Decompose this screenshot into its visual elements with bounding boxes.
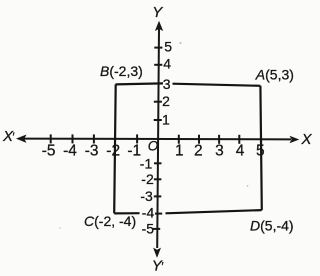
svg-text:A(5,3): A(5,3)	[255, 66, 294, 82]
svg-text:1: 1	[175, 143, 184, 160]
tick y=-5	[153, 228, 160, 230]
rectangle edge BA top segment right (y-axis to A)	[173, 84, 261, 86]
svg-text:-3: -3	[85, 143, 99, 160]
svg-text:D(5,-4): D(5,-4)	[250, 217, 294, 233]
tick x=3	[218, 135, 220, 144]
arrowhead x-axis right (X end)	[290, 136, 300, 144]
svg-text:O: O	[148, 138, 159, 153]
arrowhead y-axis top (Y end)	[155, 21, 163, 31]
x-axis	[24, 138, 291, 141]
svg-text:-2: -2	[141, 171, 154, 187]
svg-text:Y: Y	[152, 4, 163, 21]
tick y=5	[154, 47, 162, 49]
tick y=2	[154, 101, 162, 103]
svg-text:1: 1	[162, 112, 170, 128]
tick x=2	[198, 135, 200, 144]
tick y=-4	[155, 213, 162, 215]
tick y=4	[154, 64, 162, 66]
rectangle edge BA top segment left (B to y-axis)	[116, 83, 163, 84]
tick x=1	[178, 135, 180, 144]
svg-text:C(-2, -4): C(-2, -4)	[84, 213, 136, 229]
arrowhead y-axis bottom (Y' end)	[153, 248, 161, 258]
tick x=-5	[50, 134, 52, 143]
tick y=-3	[154, 195, 162, 197]
svg-text:-5: -5	[42, 143, 56, 160]
svg-text:4: 4	[236, 143, 245, 160]
tick x=-3	[93, 134, 95, 143]
tick y=-1	[154, 162, 162, 164]
scan speck near top	[180, 42, 182, 44]
tick x=-4	[72, 134, 74, 143]
rectangle edge CD bottom main segment	[166, 210, 262, 213]
rectangle edge CD bottom stub at C	[114, 212, 139, 214]
svg-text:-4: -4	[63, 143, 77, 160]
tick x=-1	[136, 134, 138, 143]
svg-text:-3: -3	[140, 188, 153, 204]
svg-text:-1: -1	[140, 156, 153, 172]
scan speck lower left	[59, 227, 61, 229]
svg-text:4: 4	[163, 56, 171, 72]
y-axis	[157, 29, 159, 248]
svg-text:-4: -4	[142, 205, 155, 221]
svg-text:Y′: Y′	[152, 257, 164, 274]
tick x=4	[238, 135, 240, 144]
arrowhead x-axis left (X' end)	[16, 135, 27, 143]
svg-text:2: 2	[162, 93, 170, 109]
svg-text:X′: X′	[2, 128, 15, 145]
rectangle edge AD right (A to D)	[260, 86, 261, 210]
tick y=1	[154, 119, 162, 121]
svg-text:X: X	[301, 131, 313, 148]
svg-text:5: 5	[256, 143, 265, 160]
svg-text:-5: -5	[142, 221, 155, 237]
scan speck right of D area	[247, 185, 249, 187]
svg-text:B(-2,3): B(-2,3)	[100, 63, 143, 79]
tick y=-2	[154, 178, 162, 180]
svg-text:5: 5	[164, 39, 172, 55]
svg-text:2: 2	[194, 143, 203, 160]
svg-text:3: 3	[215, 143, 224, 160]
svg-text:3: 3	[163, 76, 171, 92]
svg-text:-2: -2	[106, 143, 120, 160]
rectangle edge BC left (B to C)	[114, 84, 116, 213]
